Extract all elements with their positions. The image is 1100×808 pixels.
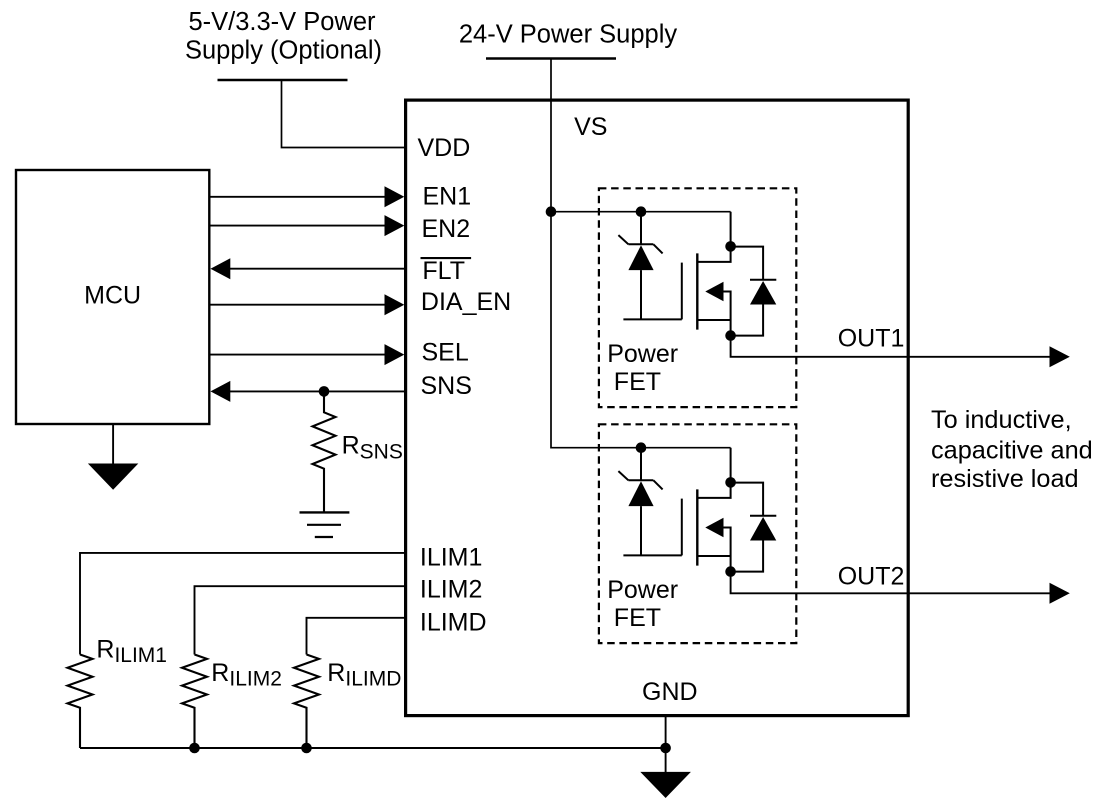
node: Q2 source xyxy=(725,566,736,577)
svg-text:resistive load: resistive load xyxy=(931,465,1079,493)
transistor Q2 bulk arrow xyxy=(705,518,723,537)
wire: VS to FET1 xyxy=(551,211,731,213)
node: GND junction xyxy=(660,743,671,754)
svg-text:MCU: MCU xyxy=(84,282,141,310)
node: FET2 input junction xyxy=(636,442,647,453)
5-V/3.3-V power supply label xyxy=(185,8,382,64)
svg-text:To inductive,: To inductive, xyxy=(931,406,1072,434)
wire: common ILIM return xyxy=(80,747,666,749)
svg-text:EN1: EN1 xyxy=(423,183,472,211)
power FET 2 dashed box xyxy=(599,424,796,643)
node: RILIMD junction xyxy=(301,743,312,754)
svg-text:ILIM2: ILIM2 xyxy=(420,576,483,604)
wire ILIM1 xyxy=(80,553,405,655)
zener diode D1 (gate clamp) xyxy=(618,212,681,320)
svg-text:VDD: VDD xyxy=(418,134,471,162)
ground (MCU) xyxy=(88,464,138,490)
svg-text:5-V/3.3-V Power: 5-V/3.3-V Power xyxy=(188,8,376,36)
wire ILIMD xyxy=(307,618,405,655)
node: VS junction xyxy=(546,206,557,217)
resistor RSNS xyxy=(313,391,336,512)
svg-text:DIA_EN: DIA_EN xyxy=(421,288,511,316)
node: Q1 drain xyxy=(725,241,736,252)
transistor Q1 drain stub xyxy=(698,212,731,262)
svg-text:24-V Power Supply: 24-V Power Supply xyxy=(459,21,678,49)
svg-text:SNS: SNS xyxy=(421,372,472,400)
wire FLT (IC to MCU) xyxy=(230,268,405,270)
ground (GND) xyxy=(640,772,691,798)
svg-text:Power: Power xyxy=(607,340,678,368)
wire EN2 (MCU to IC) xyxy=(211,225,386,227)
svg-text:Supply (Optional): Supply (Optional) xyxy=(185,36,382,64)
wire DIA_EN (MCU to IC) xyxy=(211,304,386,306)
svg-text:SEL: SEL xyxy=(422,338,469,366)
power FET 1 dashed box xyxy=(599,188,796,407)
ground (RSNS, earth symbol) xyxy=(300,511,350,513)
svg-text:VS: VS xyxy=(574,113,607,141)
body diode Q1 xyxy=(731,247,764,280)
transistor Q1 channel xyxy=(696,253,698,329)
wire SEL (MCU to IC) xyxy=(211,354,386,356)
transistor Q2 gate plate xyxy=(681,499,683,556)
svg-text:capacitive and: capacitive and xyxy=(931,436,1093,464)
IC U1 box xyxy=(406,100,909,716)
transistor Q1 bulk arrow xyxy=(705,282,723,301)
MCU box xyxy=(16,170,209,424)
transistor Q2 channel xyxy=(696,489,698,565)
resistor RILIM1 xyxy=(68,655,93,749)
svg-text:FET: FET xyxy=(614,604,661,632)
node: SNS junction xyxy=(319,386,330,397)
node: Q1 source xyxy=(725,330,736,341)
svg-text:GND: GND xyxy=(642,678,698,706)
wire OUT1 xyxy=(731,336,1050,357)
svg-text:Power: Power xyxy=(607,576,678,604)
node: Q2 drain xyxy=(725,477,736,488)
pin label FLT (with overline) xyxy=(421,257,472,259)
wire: 24-V supply to VS rail xyxy=(551,60,641,448)
wire: MCU ground stem xyxy=(112,425,114,464)
svg-text:FLT: FLT xyxy=(422,257,465,285)
wire: 5-V supply to VDD pin xyxy=(282,81,405,148)
transistor Q1 source stub xyxy=(698,319,731,321)
node: RILIM2 junction xyxy=(189,743,200,754)
wire SNS (IC to MCU) xyxy=(230,390,405,392)
24-V supply bar xyxy=(486,57,616,60)
5-V/3.3-V supply bar xyxy=(218,79,348,82)
transistor Q2 drain stub xyxy=(698,448,731,498)
wire GND xyxy=(665,716,667,772)
svg-text:EN2: EN2 xyxy=(422,215,471,243)
resistor RILIM2 xyxy=(182,655,207,749)
node: FET1 input junction xyxy=(636,206,647,217)
resistor RILIMD xyxy=(294,655,319,749)
wire ILIM2 xyxy=(195,586,405,654)
load note text xyxy=(931,406,1093,493)
svg-text:OUT1: OUT1 xyxy=(838,325,905,353)
svg-text:OUT2: OUT2 xyxy=(838,562,905,590)
transistor Q1 gate plate xyxy=(681,263,683,320)
transistor Q2 source stub xyxy=(698,555,731,557)
wire OUT2 xyxy=(731,572,1050,594)
body diode Q2 xyxy=(731,483,764,516)
zener diode D2 (gate clamp) xyxy=(618,448,681,556)
wire: VS to FET2 xyxy=(641,447,731,449)
svg-text:FET: FET xyxy=(614,368,661,396)
wire EN1 (MCU to IC) xyxy=(211,196,386,198)
svg-text:ILIMD: ILIMD xyxy=(420,609,487,637)
svg-text:ILIM1: ILIM1 xyxy=(420,544,483,572)
